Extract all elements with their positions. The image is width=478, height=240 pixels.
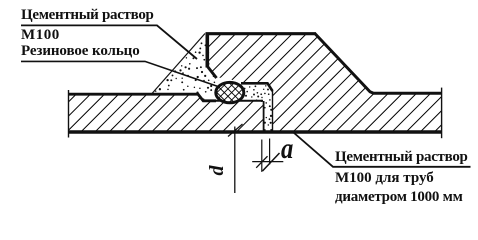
label: cement mortar top	[21, 7, 154, 24]
dimension d line	[234, 127, 236, 194]
dimension a line	[252, 161, 283, 163]
dimension d tick	[228, 124, 243, 137]
bell and right pipe body (hatched)	[206, 33, 442, 133]
label: cement mortar bottom line1	[335, 149, 468, 166]
label: cement mortar bottom line2	[335, 170, 434, 187]
dimension a tick 2	[263, 153, 280, 171]
socket shoulder line	[272, 90, 274, 133]
bell mouth chamfer	[208, 67, 217, 79]
dimension a extension line 1	[261, 140, 263, 172]
mortar strip stipple dots	[244, 85, 273, 131]
dimension a tick 1	[256, 156, 267, 168]
left end cap	[68, 90, 70, 138]
underline 2 + leader to rubber ring	[21, 61, 218, 86]
label: dimension d	[207, 163, 228, 178]
mortar wedge boundary line	[152, 34, 205, 94]
rubber ring	[216, 82, 244, 102]
socket inner lid over mortar strip	[241, 83, 273, 91]
right end cap	[441, 88, 443, 139]
bore line (bottom edge of both pipes)	[69, 130, 442, 134]
dimension a extension line 2	[269, 139, 271, 165]
spigot end face	[263, 101, 265, 133]
bell left edge	[206, 33, 210, 68]
label: dimension a	[281, 132, 293, 166]
bell slope	[315, 34, 442, 94]
label: M100	[21, 27, 60, 44]
label: rubber ring	[21, 43, 140, 60]
left pipe top edge	[69, 94, 216, 101]
bell outline top	[206, 32, 317, 35]
left pipe spigot body (hatched)	[69, 94, 263, 134]
underline 1 + leader to mortar wedge	[21, 25, 197, 59]
label: cement mortar bottom line3	[335, 189, 463, 206]
spigot top under ring	[216, 100, 263, 102]
mortar wedge stipple dots	[155, 41, 215, 100]
underline 3 + leader to joint mortar	[294, 133, 471, 167]
